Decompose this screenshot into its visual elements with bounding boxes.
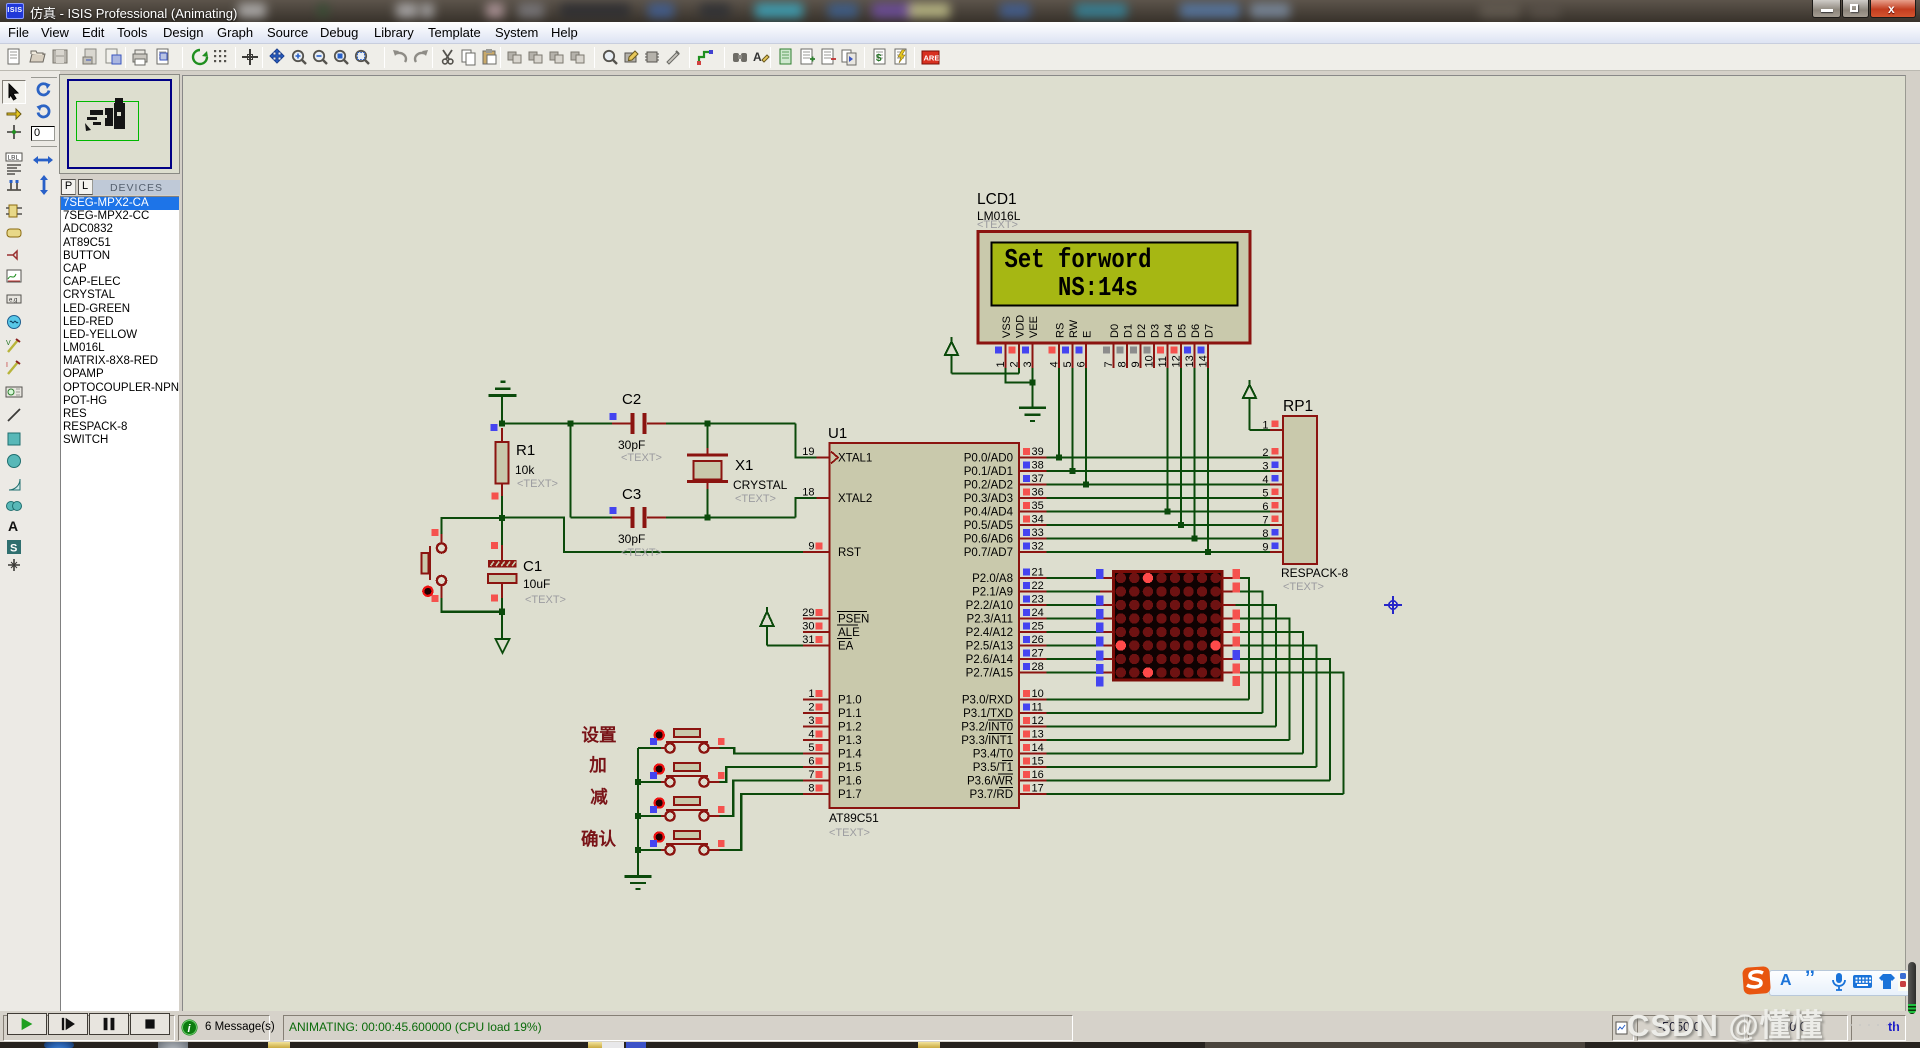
svg-text:PSEN: PSEN bbox=[838, 614, 869, 626]
U1 pin 38 P0.1/AD1 bbox=[1019, 470, 1047, 472]
svg-text:7: 7 bbox=[1103, 361, 1115, 367]
wire matrix right side risers bbox=[1236, 578, 1250, 700]
U1 pin 10 P3.0/RXD bbox=[1019, 698, 1047, 700]
wire LCD VSS/VEE to ground bbox=[1006, 368, 1033, 383]
RP1 pin 8 bbox=[1270, 537, 1283, 539]
RP1 pin 7 bbox=[1270, 524, 1283, 526]
svg-text:P2.1/A9: P2.1/A9 bbox=[972, 587, 1013, 599]
wire P0 bus rows U1 to RP1 bbox=[1047, 456, 1271, 458]
svg-text:<TEXT>: <TEXT> bbox=[621, 452, 662, 464]
wire XTAL2 net (C3 rail) bbox=[569, 424, 571, 518]
svg-text:2: 2 bbox=[1009, 361, 1021, 367]
U1 pin 36 P0.3/AD3 bbox=[1019, 497, 1047, 499]
svg-text:<TEXT>: <TEXT> bbox=[525, 594, 566, 606]
svg-text:P3.3/INT1: P3.3/INT1 bbox=[961, 735, 1013, 747]
U1 pin 14 P3.4/T0 bbox=[1019, 752, 1047, 754]
U1 pin 24 P2.3/A11 bbox=[1019, 617, 1047, 619]
U1 pin 7 P1.6 bbox=[803, 779, 830, 781]
U1 pin 31 EA bbox=[803, 644, 830, 646]
wire C1 junction to ground arrow bbox=[501, 612, 503, 639]
svg-text:<TEXT>: <TEXT> bbox=[621, 547, 662, 559]
svg-text:<TEXT>: <TEXT> bbox=[1283, 581, 1324, 593]
svg-text:X1: X1 bbox=[735, 457, 753, 474]
svg-text:10k: 10k bbox=[515, 463, 535, 477]
svg-text:D0: D0 bbox=[1109, 324, 1121, 338]
svg-text:P0.6/AD6: P0.6/AD6 bbox=[964, 534, 1013, 546]
svg-text:NS:14s: NS:14s bbox=[1058, 274, 1138, 304]
svg-text:P2.7/A15: P2.7/A15 bbox=[966, 668, 1013, 680]
button 确认 bbox=[661, 849, 666, 851]
svg-text:16: 16 bbox=[1032, 769, 1044, 781]
U1 pin 1 P1.0 bbox=[803, 698, 830, 700]
clock marker XTAL1 bbox=[831, 452, 838, 464]
button 减 bbox=[661, 815, 666, 817]
wire RST net bbox=[502, 518, 803, 553]
svg-text:EA: EA bbox=[838, 641, 854, 653]
U1 pin 6 P1.5 bbox=[803, 766, 830, 768]
svg-text:P0.5/AD5: P0.5/AD5 bbox=[964, 520, 1013, 532]
svg-text:9: 9 bbox=[1262, 542, 1268, 554]
svg-text:RS: RS bbox=[1054, 323, 1066, 338]
blue crosshair cursor bbox=[1384, 596, 1402, 614]
svg-text:LCD1: LCD1 bbox=[977, 191, 1017, 208]
wire P2 rows U1 to LED matrix bbox=[1047, 577, 1101, 579]
wire button common rail to ground bbox=[637, 748, 639, 850]
svg-text:RP1: RP1 bbox=[1283, 398, 1313, 415]
push button (reset) bbox=[440, 534, 442, 544]
svg-text:11: 11 bbox=[1157, 356, 1169, 367]
svg-text:14: 14 bbox=[1198, 355, 1210, 367]
svg-text:9: 9 bbox=[1130, 361, 1142, 367]
U1 pin 18 XTAL2 bbox=[817, 497, 830, 499]
U1 pin 23 P2.2/A10 bbox=[1019, 604, 1047, 606]
U1 pin 13 P3.3/INT1 bbox=[1019, 739, 1047, 741]
svg-text:P1.7: P1.7 bbox=[838, 789, 862, 801]
U1 pin 2 P1.1 bbox=[803, 712, 830, 714]
svg-text:D1: D1 bbox=[1122, 324, 1134, 338]
RP1 RESPACK-8 bbox=[1283, 416, 1317, 564]
svg-text:P0.3/AD3: P0.3/AD3 bbox=[964, 493, 1013, 505]
svg-text:9: 9 bbox=[808, 541, 814, 553]
svg-text:D6: D6 bbox=[1190, 324, 1202, 338]
crystal X1 bbox=[706, 448, 708, 455]
svg-text:<TEXT>: <TEXT> bbox=[829, 827, 870, 839]
U1 pin 16 P3.6/WR bbox=[1019, 779, 1047, 781]
svg-text:22: 22 bbox=[1032, 580, 1044, 592]
svg-text:P0.7/AD7: P0.7/AD7 bbox=[964, 547, 1013, 559]
svg-text:P3.5/T1: P3.5/T1 bbox=[973, 762, 1013, 774]
svg-text:18: 18 bbox=[802, 487, 814, 499]
ground (arrow style) below C1 bbox=[496, 639, 510, 653]
U1 pin 25 P2.4/A12 bbox=[1019, 631, 1047, 633]
svg-text:P1.2: P1.2 bbox=[838, 722, 862, 734]
svg-text:D3: D3 bbox=[1149, 324, 1161, 338]
svg-text:设置: 设置 bbox=[582, 725, 617, 745]
svg-text:10: 10 bbox=[1032, 688, 1044, 700]
svg-text:VSS: VSS bbox=[1001, 316, 1013, 338]
power +5V arrow for RP1 pin1 bbox=[1243, 385, 1256, 399]
svg-text:VDD: VDD bbox=[1014, 315, 1026, 338]
svg-text:Set forword: Set forword bbox=[1005, 246, 1152, 276]
RP1 pin 4 bbox=[1270, 483, 1283, 485]
svg-text:P2.4/A12: P2.4/A12 bbox=[966, 627, 1013, 639]
svg-text:3: 3 bbox=[1262, 461, 1268, 473]
svg-text:19: 19 bbox=[802, 446, 814, 458]
U1 AT89C51 body bbox=[830, 443, 1020, 808]
wire LCD D4-D7 drops to P0.4-P0.7 bbox=[1166, 368, 1168, 512]
wire crystal X1 branches bbox=[706, 424, 708, 449]
svg-text:RST: RST bbox=[838, 547, 861, 559]
svg-text:P0.4/AD4: P0.4/AD4 bbox=[964, 507, 1014, 519]
matrix left pin stubs bbox=[1100, 577, 1114, 579]
svg-text:6: 6 bbox=[1262, 501, 1268, 513]
svg-text:12: 12 bbox=[1171, 355, 1183, 367]
node junction dots bbox=[499, 420, 505, 426]
ground (bar style) below LCD bbox=[1019, 406, 1046, 409]
U1 pin 12 P3.2/INT0 bbox=[1019, 725, 1047, 727]
capacitor C3 bbox=[612, 516, 631, 518]
matrix left indicator squares bbox=[1096, 569, 1104, 579]
svg-text:C3: C3 bbox=[622, 486, 641, 503]
svg-text:13: 13 bbox=[1032, 729, 1044, 741]
svg-text:P3.0/RXD: P3.0/RXD bbox=[962, 695, 1013, 707]
svg-text:RW: RW bbox=[1068, 319, 1080, 338]
svg-text:38: 38 bbox=[1032, 460, 1044, 472]
svg-text:P2.5/A13: P2.5/A13 bbox=[966, 641, 1013, 653]
U1 pin 8 P1.7 bbox=[803, 793, 830, 795]
svg-text:10uF: 10uF bbox=[523, 577, 550, 591]
svg-text:37: 37 bbox=[1032, 473, 1044, 485]
svg-text:CRYSTAL: CRYSTAL bbox=[733, 478, 788, 492]
svg-text:VEE: VEE bbox=[1028, 316, 1040, 338]
svg-text:3: 3 bbox=[1022, 361, 1034, 367]
svg-text:XTAL1: XTAL1 bbox=[838, 453, 872, 465]
svg-text:<TEXT>: <TEXT> bbox=[977, 219, 1018, 231]
resistor R1 bbox=[501, 428, 503, 433]
svg-text:14: 14 bbox=[1032, 742, 1044, 754]
U1 pin 9 RST bbox=[803, 551, 830, 553]
svg-text:23: 23 bbox=[1032, 594, 1044, 606]
U1 pin 4 P1.3 bbox=[803, 739, 830, 741]
U1 pin 29 PSEN bbox=[803, 617, 830, 619]
svg-text:6: 6 bbox=[1076, 361, 1088, 367]
svg-text:P3.1/TXD: P3.1/TXD bbox=[963, 708, 1013, 720]
U1 pin 35 P0.4/AD4 bbox=[1019, 510, 1047, 512]
U1 pin 28 P2.7/A15 bbox=[1019, 671, 1047, 673]
svg-text:34: 34 bbox=[1032, 514, 1044, 526]
svg-text:6: 6 bbox=[808, 756, 814, 768]
matrix right indicator squares bbox=[1233, 569, 1241, 579]
U1 pin 37 P0.2/AD2 bbox=[1019, 483, 1047, 485]
svg-text:1: 1 bbox=[1262, 420, 1268, 432]
svg-text:21: 21 bbox=[1032, 567, 1044, 579]
svg-text:P1.6: P1.6 bbox=[838, 776, 862, 788]
wire LCD RS/RW/E drops to P0.0-P0.2 bbox=[1058, 368, 1060, 458]
svg-text:C2: C2 bbox=[622, 391, 641, 408]
svg-text:24: 24 bbox=[1032, 607, 1044, 619]
svg-text:2: 2 bbox=[808, 702, 814, 714]
svg-text:D2: D2 bbox=[1136, 324, 1148, 338]
svg-text:10: 10 bbox=[1144, 355, 1156, 367]
wire XTAL1 net (C2 top rail) bbox=[501, 396, 503, 424]
wire R1 to C1 bbox=[501, 493, 503, 518]
svg-text:加: 加 bbox=[588, 755, 607, 775]
svg-text:P1.4: P1.4 bbox=[838, 749, 862, 761]
svg-text:V: V bbox=[6, 340, 11, 347]
svg-text:U1: U1 bbox=[828, 425, 847, 442]
svg-text:ARES: ARES bbox=[924, 54, 941, 63]
svg-text:4: 4 bbox=[1262, 474, 1268, 486]
svg-text:AT89C51: AT89C51 bbox=[829, 811, 879, 825]
svg-text:R1: R1 bbox=[516, 442, 535, 459]
U1 pin 30 ALE bbox=[803, 631, 830, 633]
svg-text:XTAL2: XTAL2 bbox=[838, 493, 872, 505]
svg-text:E: E bbox=[1081, 331, 1093, 338]
svg-text:3: 3 bbox=[808, 715, 814, 727]
svg-text:I: I bbox=[6, 362, 8, 369]
U1 pin 26 P2.5/A13 bbox=[1019, 644, 1047, 646]
svg-text:7: 7 bbox=[808, 769, 814, 781]
U1 pin 3 P1.2 bbox=[803, 725, 830, 727]
svg-text:15: 15 bbox=[1032, 756, 1044, 768]
svg-text:39: 39 bbox=[1032, 446, 1044, 458]
U1 pin 27 P2.6/A14 bbox=[1019, 658, 1047, 660]
U1 pin 21 P2.0/A8 bbox=[1019, 577, 1047, 579]
wire VDD to power bbox=[950, 355, 952, 374]
capacitor C1 (electrolytic) bbox=[501, 545, 503, 560]
svg-text:P0.1/AD1: P0.1/AD1 bbox=[964, 466, 1013, 478]
U1 pin 19 XTAL1 bbox=[817, 456, 830, 458]
wire RP1 pin1 to power bbox=[1248, 398, 1250, 430]
svg-text:减: 减 bbox=[590, 787, 608, 807]
U1 pin 39 P0.0/AD0 bbox=[1019, 456, 1047, 458]
wire EA to power bbox=[766, 626, 768, 646]
RP1 pin 3 bbox=[1270, 470, 1283, 472]
matrix right pin stubs bbox=[1222, 577, 1236, 579]
svg-text:29: 29 bbox=[802, 607, 814, 619]
svg-text:4: 4 bbox=[1049, 361, 1061, 367]
svg-text:P0.2/AD2: P0.2/AD2 bbox=[964, 480, 1013, 492]
RP1 pin 5 bbox=[1270, 497, 1283, 499]
LED matrix 8x8 MATRIX-8X8-RED bbox=[1114, 572, 1223, 681]
U1 pin 15 P3.5/T1 bbox=[1019, 766, 1047, 768]
svg-text:RESPACK-8: RESPACK-8 bbox=[1281, 566, 1348, 580]
svg-text:13: 13 bbox=[1184, 355, 1196, 367]
svg-text:4: 4 bbox=[808, 729, 814, 741]
svg-text:<TEXT>: <TEXT> bbox=[517, 478, 558, 490]
wire reset button to R1/C1 junction bbox=[442, 518, 503, 534]
svg-text:A: A bbox=[8, 518, 18, 534]
svg-text:30pF: 30pF bbox=[618, 438, 645, 452]
svg-text:P3.7/RD: P3.7/RD bbox=[970, 789, 1013, 801]
svg-text:确认: 确认 bbox=[581, 829, 616, 849]
RP1 pin 6 bbox=[1270, 510, 1283, 512]
U1 pin 11 P3.1/TXD bbox=[1019, 712, 1047, 714]
power +5V arrow for LCD VDD bbox=[945, 342, 958, 356]
svg-text:P3.2/INT0: P3.2/INT0 bbox=[961, 722, 1013, 734]
svg-text:2: 2 bbox=[1262, 447, 1268, 459]
capacitor C2 bbox=[612, 422, 631, 424]
svg-text:8: 8 bbox=[808, 783, 814, 795]
svg-text:32: 32 bbox=[1032, 541, 1044, 553]
svg-text:27: 27 bbox=[1032, 648, 1044, 660]
svg-text:P1.3: P1.3 bbox=[838, 735, 862, 747]
svg-text:S: S bbox=[10, 542, 17, 554]
button 设置 bbox=[661, 747, 666, 749]
svg-text:P2.6/A14: P2.6/A14 bbox=[966, 654, 1014, 666]
U1 pin 34 P0.5/AD5 bbox=[1019, 524, 1047, 526]
svg-text:30pF: 30pF bbox=[618, 532, 645, 546]
svg-text:P0.0/AD0: P0.0/AD0 bbox=[964, 453, 1013, 465]
svg-text:P2.2/A10: P2.2/A10 bbox=[966, 600, 1013, 612]
svg-text:31: 31 bbox=[802, 634, 814, 646]
svg-text:e.g: e.g bbox=[9, 298, 17, 304]
svg-text:ALE: ALE bbox=[838, 627, 860, 639]
U1 pin 33 P0.6/AD6 bbox=[1019, 537, 1047, 539]
svg-text:5: 5 bbox=[1262, 488, 1268, 500]
svg-text:8: 8 bbox=[1262, 528, 1268, 540]
overlines INT0 INT1 T1 WR RD bbox=[988, 719, 1013, 721]
svg-text:C1: C1 bbox=[523, 558, 542, 575]
svg-text:8: 8 bbox=[1117, 361, 1129, 367]
ground (bar style) above crystal rail bbox=[501, 381, 506, 383]
svg-text:5: 5 bbox=[808, 742, 814, 754]
svg-text:P1.1: P1.1 bbox=[838, 708, 862, 720]
svg-text:P3.6/WR: P3.6/WR bbox=[967, 776, 1013, 788]
svg-text:P2.0/A8: P2.0/A8 bbox=[972, 573, 1013, 585]
svg-text:33: 33 bbox=[1032, 527, 1044, 539]
svg-text:1: 1 bbox=[995, 361, 1007, 367]
power +5V arrow for EA bbox=[761, 612, 774, 626]
U1 pin 22 P2.1/A9 bbox=[1019, 590, 1047, 592]
RP1 pin 2 bbox=[1270, 456, 1283, 458]
svg-text:$: $ bbox=[876, 53, 882, 64]
svg-text:D7: D7 bbox=[1203, 324, 1215, 338]
RP1 pin 1 bbox=[1270, 429, 1283, 431]
U1 pin 5 P1.4 bbox=[803, 752, 830, 754]
svg-text:<TEXT>: <TEXT> bbox=[735, 493, 776, 505]
svg-text:28: 28 bbox=[1032, 661, 1044, 673]
RP1 pin 9 bbox=[1270, 551, 1283, 553]
U1 pin 17 P3.7/RD bbox=[1019, 793, 1047, 795]
ground (bar style) below buttons bbox=[625, 875, 652, 878]
svg-text:5: 5 bbox=[1062, 361, 1074, 367]
U1 pin 32 P0.7/AD7 bbox=[1019, 551, 1047, 553]
svg-text:35: 35 bbox=[1032, 500, 1044, 512]
button 加 bbox=[661, 781, 666, 783]
svg-text:A: A bbox=[753, 50, 762, 64]
svg-text:P1.5: P1.5 bbox=[838, 762, 862, 774]
svg-text:17: 17 bbox=[1032, 783, 1044, 795]
svg-text:7: 7 bbox=[1262, 515, 1268, 527]
svg-text:P2.3/A11: P2.3/A11 bbox=[967, 614, 1013, 626]
svg-text:D4: D4 bbox=[1163, 324, 1175, 338]
svg-text:30: 30 bbox=[802, 621, 814, 633]
LCD screen bbox=[992, 243, 1238, 306]
svg-text:36: 36 bbox=[1032, 487, 1044, 499]
svg-text:25: 25 bbox=[1032, 621, 1044, 633]
wire P3 rows U1 to matrix risers bbox=[1047, 698, 1250, 700]
svg-text:1: 1 bbox=[808, 688, 814, 700]
svg-text:26: 26 bbox=[1032, 634, 1044, 646]
svg-text:12: 12 bbox=[1032, 715, 1044, 727]
svg-text:11: 11 bbox=[1032, 702, 1043, 714]
wire button rows to P1.4-P1.7 bbox=[711, 748, 803, 754]
svg-text:D5: D5 bbox=[1176, 324, 1188, 338]
svg-text:P1.0: P1.0 bbox=[838, 695, 862, 707]
svg-text:P3.4/T0: P3.4/T0 bbox=[973, 749, 1013, 761]
